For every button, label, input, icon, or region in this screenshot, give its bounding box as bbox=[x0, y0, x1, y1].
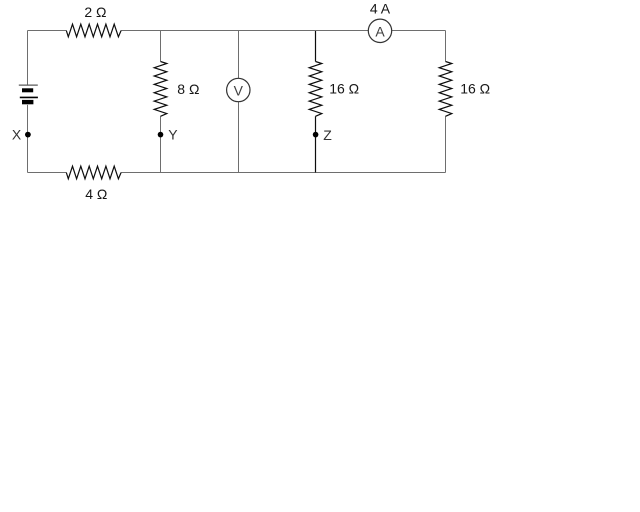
svg-text:4 A: 4 A bbox=[370, 0, 391, 16]
svg-text:16 Ω: 16 Ω bbox=[329, 81, 359, 97]
svg-text:2 Ω: 2 Ω bbox=[84, 4, 106, 20]
svg-text:V: V bbox=[234, 83, 244, 99]
svg-text:Z: Z bbox=[323, 127, 332, 143]
svg-text:16 Ω: 16 Ω bbox=[460, 81, 490, 97]
svg-text:Y: Y bbox=[168, 127, 178, 143]
svg-text:4 Ω: 4 Ω bbox=[85, 186, 107, 202]
svg-text:A: A bbox=[375, 23, 385, 39]
svg-text:8 Ω: 8 Ω bbox=[177, 81, 199, 97]
svg-text:X: X bbox=[12, 127, 22, 143]
